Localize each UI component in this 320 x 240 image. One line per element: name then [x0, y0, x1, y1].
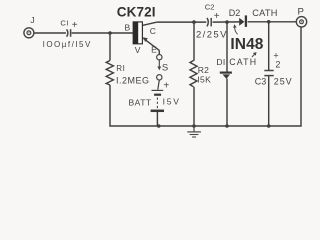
svg-text:CATH: CATH [229, 57, 257, 67]
svg-text:C: C [150, 26, 156, 36]
svg-text:I5V: I5V [163, 97, 181, 107]
svg-text:J: J [30, 15, 34, 25]
svg-text:C3: C3 [255, 76, 267, 86]
svg-text:CI: CI [60, 19, 69, 28]
svg-text:R2: R2 [198, 65, 209, 75]
svg-text:CATH: CATH [252, 8, 278, 18]
svg-text:BATT: BATT [129, 98, 152, 108]
svg-text:V: V [135, 45, 141, 55]
svg-text:D2: D2 [229, 8, 241, 18]
svg-text:RI: RI [116, 64, 125, 73]
svg-text:I5K: I5K [197, 74, 211, 84]
svg-text:I.2MEG: I.2MEG [116, 76, 150, 86]
svg-text:E: E [151, 45, 157, 55]
svg-text:2: 2 [275, 59, 280, 69]
svg-text:B: B [125, 23, 131, 33]
svg-text:25V: 25V [274, 76, 293, 86]
svg-text:CK72I: CK72I [117, 5, 156, 20]
svg-text:IN48: IN48 [230, 36, 263, 53]
svg-text:IOOµf/I5V: IOOµf/I5V [43, 40, 92, 49]
svg-text:DI: DI [216, 57, 225, 67]
svg-text:+: + [72, 20, 78, 31]
svg-text:2/25V: 2/25V [196, 30, 228, 41]
svg-text:P: P [298, 6, 304, 17]
svg-text:+: + [163, 81, 169, 92]
svg-text:+: + [214, 11, 220, 22]
svg-text:S: S [162, 63, 168, 74]
